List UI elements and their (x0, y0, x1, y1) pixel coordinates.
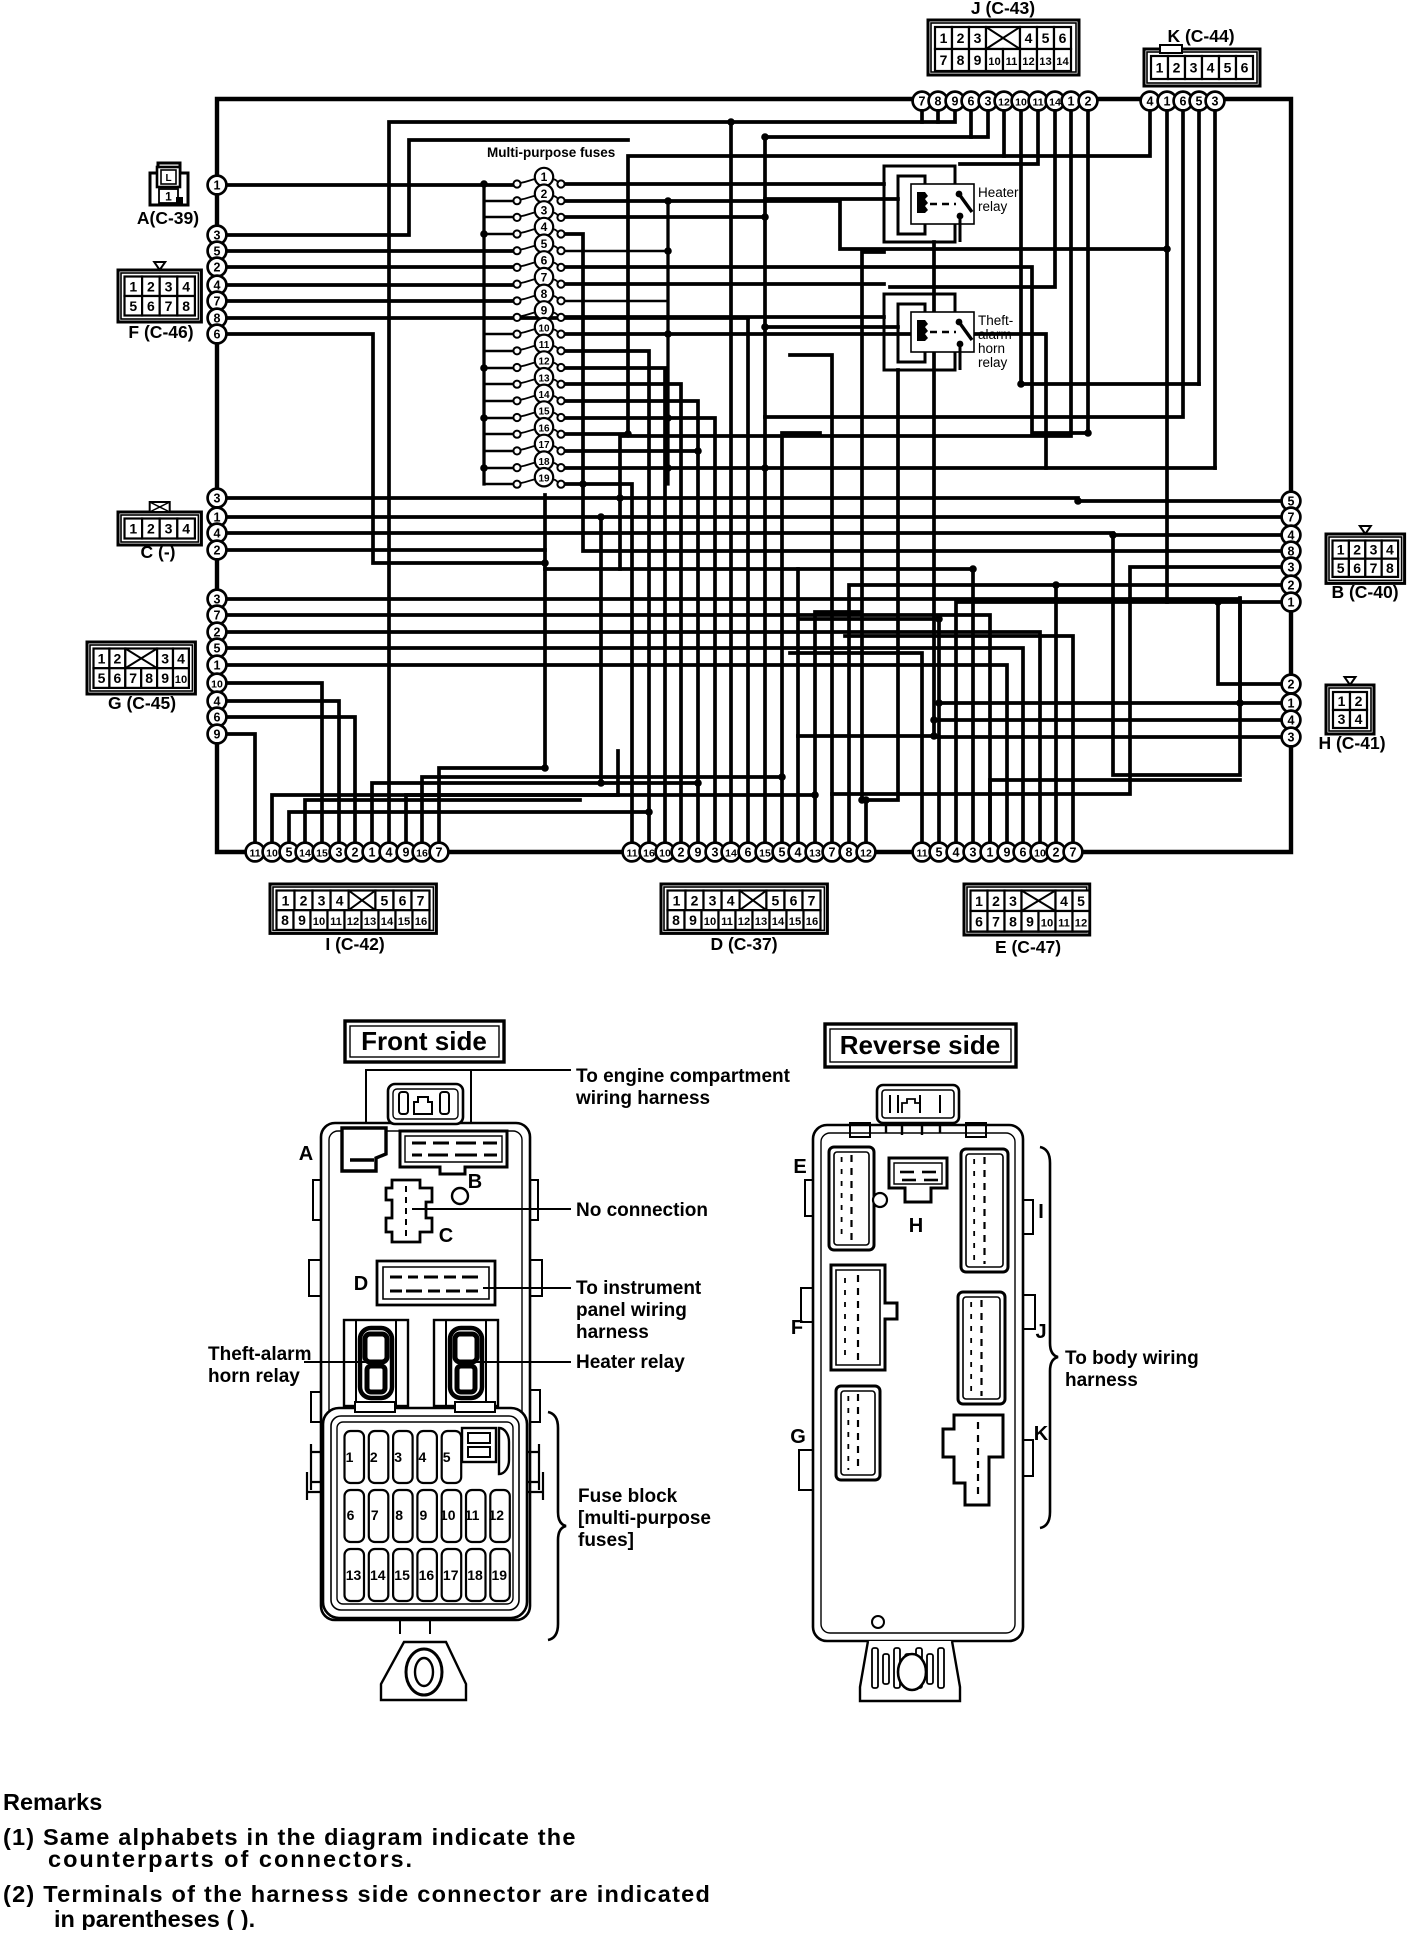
svg-text:3: 3 (165, 521, 173, 537)
wire (1054, 585, 1058, 843)
terminal B2 (1282, 576, 1301, 595)
wire (372, 783, 698, 843)
terminal J6 (962, 92, 981, 111)
wire (226, 548, 545, 552)
svg-text:14: 14 (299, 847, 311, 859)
relay slot next to row1 (462, 1428, 496, 1462)
wire (226, 701, 339, 843)
fuse 19 (513, 468, 564, 488)
svg-text:11: 11 (916, 847, 927, 859)
svg-text:horn relay: horn relay (208, 1366, 300, 1387)
wire (934, 242, 1282, 737)
svg-text:9: 9 (1004, 845, 1011, 859)
terminal B4 (1282, 526, 1301, 545)
fuse 6 (513, 251, 564, 271)
svg-text:1: 1 (975, 893, 983, 909)
svg-text:4: 4 (1386, 542, 1394, 558)
front connector A (299, 1128, 386, 1171)
svg-text:2: 2 (1053, 845, 1060, 859)
svg-text:9: 9 (952, 94, 959, 108)
svg-text:Theft-alarm: Theft-alarm (208, 1344, 311, 1365)
svg-text:2: 2 (352, 845, 359, 859)
wire (226, 183, 513, 187)
terminal I11 (246, 843, 265, 862)
wire (226, 683, 322, 843)
svg-text:14: 14 (725, 847, 737, 859)
fuse 10 (513, 318, 564, 338)
reverse connector H (873, 1158, 947, 1237)
svg-text:10: 10 (1015, 96, 1027, 108)
svg-text:Heater relay: Heater relay (576, 1352, 685, 1373)
wire (1021, 101, 1199, 384)
svg-text:2: 2 (114, 650, 122, 666)
terminal J8 (929, 92, 948, 111)
fuse 11 (513, 335, 564, 355)
wire (226, 316, 748, 320)
svg-text:2: 2 (1353, 542, 1361, 558)
svg-text:H: H (909, 1215, 923, 1237)
terminal H3 (1282, 728, 1301, 747)
wire (746, 318, 750, 843)
svg-text:1: 1 (214, 178, 221, 192)
svg-text:6: 6 (790, 892, 798, 908)
to body wiring harness brace + label (1040, 1147, 1058, 1528)
svg-text:To body wiring: To body wiring (1065, 1348, 1199, 1369)
svg-text:horn: horn (978, 341, 1005, 356)
terminal E5 (930, 843, 949, 862)
svg-text:19: 19 (538, 473, 550, 484)
svg-text:2: 2 (1355, 693, 1363, 709)
svg-text:11: 11 (1058, 917, 1070, 929)
svg-text:6: 6 (1020, 845, 1027, 859)
terminal I1 (363, 843, 382, 862)
connector D (C-37) (661, 884, 827, 954)
svg-text:harness: harness (1065, 1370, 1138, 1391)
terminal B7 (1282, 508, 1301, 527)
svg-text:6: 6 (968, 94, 975, 108)
svg-text:10: 10 (659, 847, 671, 859)
svg-text:6: 6 (147, 298, 155, 314)
svg-text:7: 7 (1370, 560, 1378, 576)
wire (565, 282, 884, 286)
wire (226, 283, 513, 287)
terminal D6 (739, 843, 758, 862)
svg-text:18: 18 (467, 1567, 483, 1583)
svg-text:1: 1 (673, 892, 681, 908)
svg-text:5: 5 (443, 1449, 451, 1465)
svg-text:8: 8 (957, 52, 965, 68)
svg-text:To engine compartment: To engine compartment (576, 1066, 791, 1087)
reverse connector J (958, 1292, 1047, 1404)
wire (866, 370, 898, 843)
svg-text:1: 1 (987, 845, 994, 859)
terminal J9 (946, 92, 965, 111)
svg-text:relay: relay (978, 199, 1008, 214)
svg-text:3: 3 (1288, 730, 1295, 744)
svg-text:Front side: Front side (361, 1026, 487, 1056)
svg-text:3: 3 (214, 592, 221, 606)
svg-text:7: 7 (371, 1507, 379, 1523)
svg-text:1: 1 (1338, 693, 1346, 709)
svg-text:7: 7 (541, 270, 548, 284)
fuse 15 (513, 401, 564, 421)
svg-text:18: 18 (538, 457, 550, 468)
svg-text:9: 9 (541, 304, 548, 318)
front top connector (388, 1084, 463, 1124)
terminal I4 (380, 843, 399, 862)
svg-text:2: 2 (541, 187, 548, 201)
svg-text:J (C-43): J (C-43) (971, 0, 1035, 18)
terminal E4 (947, 843, 966, 862)
terminal E10 (1031, 843, 1050, 862)
junction dots (480, 180, 488, 188)
svg-text:1: 1 (369, 845, 376, 859)
svg-text:2: 2 (1085, 94, 1092, 108)
svg-text:7: 7 (808, 892, 816, 908)
svg-text:7: 7 (436, 845, 443, 859)
svg-text:1: 1 (98, 650, 106, 666)
svg-text:8: 8 (1288, 544, 1295, 558)
svg-text:5: 5 (779, 845, 786, 859)
svg-text:2: 2 (957, 30, 965, 46)
svg-text:D (C-37): D (C-37) (710, 934, 777, 954)
svg-text:13: 13 (364, 916, 376, 928)
wire (545, 567, 973, 571)
svg-text:[multi-purpose: [multi-purpose (578, 1508, 711, 1529)
svg-text:1: 1 (1164, 94, 1171, 108)
wire (422, 777, 782, 843)
wire (832, 567, 1282, 794)
svg-text:C (-): C (-) (141, 542, 176, 562)
wire (565, 201, 668, 468)
svg-text:6: 6 (399, 892, 407, 908)
wire (406, 795, 815, 843)
wire (226, 599, 1240, 703)
terminal J10 (1012, 92, 1031, 111)
terminal H2 (1282, 675, 1301, 694)
svg-text:3: 3 (1288, 560, 1295, 574)
fuse 7 (513, 268, 564, 288)
svg-text:1: 1 (282, 892, 290, 908)
wire (815, 612, 860, 843)
svg-text:16: 16 (643, 847, 655, 859)
terminal G6 (208, 708, 227, 727)
connector I (C-42) (270, 884, 436, 954)
svg-text:J: J (1035, 1321, 1046, 1343)
wire (484, 201, 513, 484)
svg-text:5: 5 (381, 892, 389, 908)
svg-text:3: 3 (214, 228, 221, 242)
svg-text:11: 11 (465, 1507, 480, 1523)
terminal D4 (789, 843, 808, 862)
wire (565, 267, 1088, 433)
svg-text:K (C-44): K (C-44) (1167, 26, 1234, 46)
svg-text:G (C-45): G (C-45) (108, 693, 176, 713)
svg-text:2: 2 (370, 1449, 378, 1465)
svg-text:3: 3 (214, 491, 221, 505)
svg-text:5: 5 (1077, 893, 1085, 909)
svg-text:7: 7 (1288, 510, 1295, 524)
reverse side label box (825, 1024, 1016, 1067)
svg-text:1: 1 (165, 190, 172, 204)
svg-text:To instrument: To instrument (576, 1278, 702, 1299)
svg-text:10: 10 (211, 678, 223, 690)
svg-text:2: 2 (1288, 677, 1295, 691)
svg-text:5: 5 (1337, 560, 1345, 576)
wire (849, 585, 1282, 843)
terminal B1 (1282, 593, 1301, 612)
terminal C3 (208, 489, 227, 508)
wire (226, 299, 513, 303)
svg-text:3: 3 (709, 892, 717, 908)
svg-text:4: 4 (214, 694, 221, 708)
reverse side clips (799, 1180, 1035, 1490)
terminal G10 (208, 674, 227, 693)
svg-text:4: 4 (541, 220, 548, 234)
svg-text:16: 16 (416, 847, 428, 859)
svg-text:C: C (439, 1225, 453, 1247)
wire (936, 101, 940, 122)
svg-text:11: 11 (539, 340, 550, 351)
svg-text:1: 1 (1288, 696, 1295, 710)
wire (565, 368, 665, 843)
svg-text:Multi-purpose fuses: Multi-purpose fuses (487, 145, 615, 160)
svg-text:5: 5 (98, 670, 106, 686)
terminal K1 (1158, 92, 1177, 111)
svg-text:12: 12 (1022, 56, 1034, 68)
svg-text:3: 3 (541, 204, 548, 218)
fuse 2 (513, 185, 564, 205)
svg-text:alarm: alarm (978, 327, 1012, 342)
svg-text:14: 14 (1049, 96, 1061, 108)
terminal G4 (208, 692, 227, 711)
svg-text:3: 3 (1370, 542, 1378, 558)
svg-text:5: 5 (286, 845, 293, 859)
connector E (C-47) (964, 884, 1090, 957)
wire (1218, 602, 1282, 684)
svg-text:3: 3 (985, 94, 992, 108)
front connector B (400, 1131, 507, 1193)
svg-text:7: 7 (129, 670, 137, 686)
svg-text:10: 10 (1034, 847, 1046, 859)
terminal J11 (1029, 92, 1048, 111)
svg-text:12: 12 (489, 1507, 505, 1523)
terminal K4 (1141, 92, 1160, 111)
svg-text:7: 7 (417, 892, 425, 908)
fuse 16 (513, 418, 564, 438)
fuse 18 (513, 451, 564, 471)
svg-text:6: 6 (114, 670, 122, 686)
fuse 14 (513, 385, 564, 405)
terminal B8 (1282, 542, 1301, 561)
svg-text:2: 2 (1288, 578, 1295, 592)
fuse slots row 1 (1-5) (345, 1431, 365, 1483)
wire (565, 432, 628, 436)
fuse 1 (513, 168, 564, 188)
svg-text:7: 7 (992, 913, 1000, 929)
svg-text:8: 8 (145, 670, 153, 686)
svg-text:17: 17 (538, 440, 550, 451)
reverse connector I (961, 1149, 1044, 1272)
reverse connector G (790, 1386, 880, 1480)
fuse block brace + label (548, 1412, 566, 1640)
wire (439, 495, 545, 843)
svg-text:10: 10 (175, 674, 187, 686)
terminal D13 (806, 843, 825, 862)
terminal F7 (208, 292, 227, 311)
svg-text:10: 10 (313, 916, 325, 928)
svg-text:5: 5 (1196, 94, 1203, 108)
terminal K6 (1174, 92, 1193, 111)
wire (1167, 101, 1282, 602)
wire (969, 101, 973, 137)
terminal D16 (640, 843, 659, 862)
terminal J14 (1046, 92, 1065, 111)
svg-text:7: 7 (829, 845, 836, 859)
terminal G9 (208, 725, 227, 744)
svg-text:4: 4 (419, 1449, 427, 1465)
wire (765, 197, 898, 201)
svg-text:12: 12 (738, 916, 750, 928)
wire (226, 665, 1007, 843)
svg-text:4: 4 (727, 892, 735, 908)
svg-text:3: 3 (165, 278, 173, 294)
svg-text:14: 14 (381, 916, 394, 928)
theft-alarm horn relay socket (344, 1320, 408, 1406)
wire (971, 569, 975, 843)
svg-text:8: 8 (1009, 913, 1017, 929)
svg-text:I: I (1038, 1201, 1044, 1223)
svg-text:Heater: Heater (978, 185, 1019, 200)
svg-text:4: 4 (1288, 713, 1295, 727)
svg-text:5: 5 (129, 298, 137, 314)
svg-text:wiring harness: wiring harness (575, 1088, 710, 1109)
svg-text:10: 10 (704, 916, 716, 928)
svg-text:2: 2 (678, 845, 685, 859)
svg-text:10: 10 (266, 847, 278, 859)
svg-text:8: 8 (672, 912, 680, 928)
svg-text:in parentheses ( ).: in parentheses ( ). (54, 1906, 255, 1930)
svg-text:12: 12 (538, 357, 550, 368)
svg-text:3: 3 (394, 1449, 402, 1465)
svg-text:4: 4 (177, 650, 185, 666)
svg-text:14: 14 (538, 390, 550, 401)
svg-text:relay: relay (978, 355, 1008, 370)
svg-text:Fuse block: Fuse block (578, 1486, 678, 1507)
svg-text:6: 6 (1353, 560, 1361, 576)
svg-text:1: 1 (129, 521, 137, 537)
fuse 13 (513, 368, 564, 388)
svg-text:G: G (790, 1426, 806, 1448)
svg-text:3: 3 (1212, 94, 1219, 108)
terminal G7 (208, 606, 227, 625)
svg-text:2: 2 (992, 893, 1000, 909)
fuse 8 (513, 285, 564, 305)
wire (565, 418, 715, 843)
svg-text:4: 4 (1060, 893, 1068, 909)
svg-text:Reverse side: Reverse side (840, 1030, 1000, 1060)
terminal J1 (1062, 92, 1081, 111)
terminal F4 (208, 276, 227, 295)
svg-text:panel wiring: panel wiring (576, 1300, 687, 1321)
wire (226, 265, 513, 269)
terminal J2 (1079, 92, 1098, 111)
svg-text:Remarks: Remarks (3, 1789, 102, 1815)
svg-text:3: 3 (712, 845, 719, 859)
svg-text:H (C-41): H (C-41) (1318, 733, 1385, 753)
wire (226, 140, 628, 235)
svg-text:4: 4 (795, 845, 802, 859)
body side clips (309, 1180, 542, 1422)
svg-text:15: 15 (316, 847, 328, 859)
wire (226, 648, 1023, 843)
svg-text:6: 6 (214, 327, 221, 341)
svg-text:3: 3 (1009, 893, 1017, 909)
svg-text:6: 6 (1180, 94, 1187, 108)
wire (1002, 101, 1006, 156)
svg-text:9: 9 (974, 52, 982, 68)
svg-text:1: 1 (1156, 60, 1164, 76)
svg-text:K: K (1034, 1423, 1049, 1445)
svg-text:5: 5 (1042, 30, 1050, 46)
front connector C (386, 1180, 453, 1247)
terminal I10 (263, 843, 282, 862)
svg-text:12: 12 (860, 847, 872, 859)
svg-text:2: 2 (147, 521, 155, 537)
fuse 12 (513, 351, 564, 371)
terminal K5 (1190, 92, 1209, 111)
wire (862, 252, 884, 800)
svg-text:10: 10 (440, 1507, 456, 1523)
svg-text:4: 4 (336, 892, 344, 908)
svg-text:13: 13 (538, 373, 550, 384)
wire (729, 122, 733, 843)
svg-text:4: 4 (182, 278, 190, 294)
svg-text:9: 9 (420, 1507, 428, 1523)
svg-text:10: 10 (988, 56, 1000, 68)
svg-text:1: 1 (214, 510, 221, 524)
terminal D3 (706, 843, 725, 862)
wire (565, 484, 632, 843)
wire (1113, 535, 1240, 775)
svg-text:1: 1 (940, 30, 948, 46)
wire (289, 812, 649, 843)
wire (790, 355, 832, 843)
terminal G2 (208, 623, 227, 642)
svg-text:2: 2 (300, 892, 308, 908)
svg-text:12: 12 (347, 916, 359, 928)
svg-text:3: 3 (1338, 711, 1346, 727)
terminal I16 (413, 843, 432, 862)
svg-text:Theft-: Theft- (978, 313, 1013, 328)
svg-text:6: 6 (347, 1507, 355, 1523)
svg-text:9: 9 (695, 845, 702, 859)
fuse block outline (schematic border) (217, 99, 1291, 852)
wire (226, 615, 990, 843)
wire (939, 701, 1282, 705)
terminal H1 (1282, 694, 1301, 713)
front connector D (354, 1261, 495, 1305)
svg-text:I (C-42): I (C-42) (325, 934, 384, 954)
svg-text:1: 1 (214, 658, 221, 672)
terminal D9 (689, 843, 708, 862)
reverse bottom bracket (860, 1641, 960, 1701)
svg-text:L: L (165, 173, 171, 184)
wire (565, 201, 1167, 249)
wire (565, 401, 698, 843)
svg-text:7: 7 (919, 94, 926, 108)
wire (599, 517, 603, 783)
